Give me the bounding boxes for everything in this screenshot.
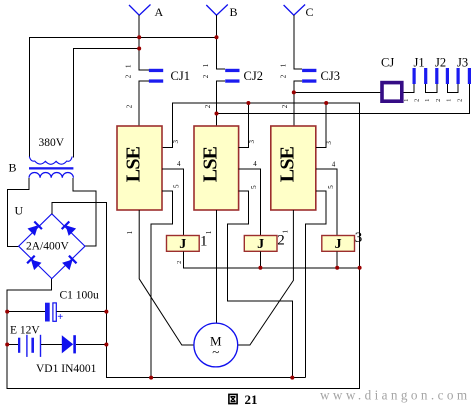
wire CJ3 to LSE3 pin 2: [294, 81, 302, 126]
wire LSE2 pin 3 to common net: [239, 103, 249, 147]
svg-text:1: 1: [202, 63, 210, 67]
svg-text:1: 1: [403, 99, 410, 102]
svg-text:2: 2: [281, 104, 289, 108]
node J3 return: [215, 112, 219, 116]
bridge rectifier U diamond: [19, 214, 85, 279]
svg-text:2: 2: [126, 104, 134, 108]
antenna B: [206, 5, 228, 16]
antenna C: [284, 5, 306, 16]
svg-text:1: 1: [445, 99, 452, 102]
wire secondary left to bridge AC1: [7, 178, 29, 247]
wire relay J2 bottom: [259, 251, 261, 267]
relay coil J (3): [322, 236, 355, 252]
svg-text:C: C: [306, 5, 314, 19]
relay coil J (2): [244, 236, 277, 252]
svg-text:LSE: LSE: [123, 146, 145, 182]
svg-text:LSE: LSE: [200, 146, 222, 182]
wire VD1 to DC rail: [76, 344, 107, 346]
IC LSE1: [117, 126, 162, 210]
node CJ coil left: [292, 90, 296, 94]
svg-text:J: J: [257, 237, 264, 252]
wire phase bus A-B to transformer primary left: [30, 37, 217, 157]
svg-text:3: 3: [355, 230, 363, 246]
svg-text:J: J: [179, 237, 186, 252]
diode VD1: [62, 335, 73, 353]
svg-text:CJ3: CJ3: [321, 69, 340, 83]
svg-text:2: 2: [414, 99, 421, 102]
svg-text:2: 2: [204, 104, 212, 108]
diode bridge lower-right: [62, 260, 73, 271]
svg-text:380V: 380V: [39, 137, 65, 149]
diode bridge upper-left: [28, 225, 39, 236]
svg-text:1: 1: [200, 233, 208, 249]
transformer B secondary winding: [29, 173, 73, 178]
wire antenna C down to CJ3: [294, 15, 302, 69]
wire CJ2 to LSE2 pin 2: [217, 81, 226, 126]
wire contact J2 to J3: [447, 84, 458, 92]
svg-text:1: 1: [424, 99, 431, 102]
node J2 bottom: [258, 266, 262, 270]
wire LSE2 pin 5 to supply rail: [228, 191, 293, 378]
svg-text:LSE: LSE: [276, 146, 298, 182]
wire bridge plus to DC rail and LSE pin5 rail: [52, 202, 306, 377]
transformer B core: [29, 167, 73, 169]
wire CJ coil to contact J1: [404, 84, 415, 92]
svg-text:E 12V: E 12V: [10, 325, 40, 337]
node C1 right: [104, 310, 108, 314]
svg-text:J3: J3: [457, 56, 468, 70]
node A bus: [137, 35, 141, 39]
wire LSE3 pin 5 to supply rail: [305, 191, 326, 378]
svg-text:CJ2: CJ2: [244, 69, 263, 83]
wire battery to VD1: [41, 344, 62, 346]
transformer B primary winding: [29, 157, 72, 165]
wire C1 right: [57, 311, 107, 313]
wire node CJ3 to relay coil CJ: [294, 91, 381, 93]
relay coil CJ: [382, 83, 402, 102]
svg-text:CJ: CJ: [381, 56, 394, 70]
motor M: [194, 323, 238, 367]
svg-text:2: 2: [125, 74, 133, 78]
svg-text:3: 3: [248, 140, 256, 144]
svg-text:J1: J1: [414, 56, 425, 70]
wire LSE3 pin 3 to common net: [316, 103, 326, 147]
svg-text:~: ~: [212, 344, 219, 359]
diode bridge upper-right: [66, 225, 77, 236]
svg-text:4: 4: [332, 161, 336, 169]
wire LSE1 pin 5 to supply rail: [151, 191, 172, 378]
node A tap: [137, 47, 141, 51]
wire LSE3 pin 4 to relay J3 coil: [316, 169, 337, 236]
wire contact J1 to J2: [426, 84, 437, 92]
svg-text:3: 3: [172, 140, 180, 144]
node LSE2 pin3: [246, 101, 250, 105]
svg-text:2: 2: [176, 261, 183, 264]
contact J3 bars: [457, 68, 460, 84]
contact CJ2 top bar: [225, 69, 239, 72]
svg-text:3: 3: [325, 141, 333, 145]
wire LSE3 pin 1 to motor right: [238, 210, 294, 345]
svg-text:J2: J2: [435, 56, 446, 70]
svg-text:A: A: [155, 5, 164, 19]
wire battery left: [7, 344, 18, 346]
IC LSE3: [271, 126, 316, 210]
svg-text:1: 1: [124, 64, 132, 68]
contact J1 bars: [413, 68, 416, 84]
svg-text:2: 2: [457, 99, 464, 102]
wire common net: LSE pin3 bus, right rail, bottom bus to bridge minus: [7, 103, 359, 389]
wire CJ1 to LSE1 pin 2: [139, 81, 149, 126]
caption figure 21 glyph: [229, 394, 237, 403]
svg-text:B: B: [230, 5, 238, 19]
svg-text:1: 1: [126, 230, 134, 234]
node B bus: [215, 35, 219, 39]
wire antenna B down to CJ2: [217, 15, 226, 69]
diode bridge lower-left: [31, 260, 42, 271]
wire LSE1 pin 4 to relay J1 coil: [162, 169, 184, 236]
svg-text:U: U: [15, 204, 24, 218]
contact CJ1 top bar: [149, 69, 163, 72]
node J3 bottom: [335, 266, 339, 270]
svg-text:J: J: [335, 237, 342, 252]
IC LSE2: [194, 126, 239, 210]
svg-text:4: 4: [177, 160, 181, 168]
contact CJ2 bottom bar: [225, 79, 239, 82]
svg-text:4: 4: [253, 160, 257, 168]
antenna A: [129, 5, 151, 16]
wire phase A to transformer primary right: [74, 49, 140, 158]
wire relay J3 bottom: [336, 251, 338, 267]
wire LSE1 pin 1 to motor left: [139, 210, 194, 345]
svg-text:2: 2: [277, 233, 285, 249]
svg-text:VD1 IN4001: VD1 IN4001: [36, 363, 97, 375]
node C1 left: [5, 310, 9, 314]
svg-text:21: 21: [245, 392, 258, 407]
node right rail: [358, 266, 362, 270]
node rail LSE1 pin5: [149, 376, 153, 380]
capacitor C1: [45, 303, 50, 322]
svg-text:www.diangon.com: www.diangon.com: [320, 388, 471, 403]
svg-text:B: B: [9, 161, 17, 175]
wire contact J3 return to node on CJ2 wire: [217, 84, 470, 114]
node rail LSE2 pin5: [290, 376, 294, 380]
svg-text:5: 5: [250, 185, 258, 189]
wire antenna A down to CJ1: [139, 15, 149, 70]
wire relay J bottoms bus: [184, 251, 360, 267]
svg-text:CJ1: CJ1: [171, 69, 190, 83]
contact CJ1 bottom bar: [149, 79, 163, 82]
contact CJ3 bottom bar: [302, 79, 316, 82]
contact CJ3 top bar: [302, 69, 316, 72]
svg-text:5: 5: [173, 184, 181, 188]
node LSE3 pin3: [324, 101, 328, 105]
svg-text:5: 5: [327, 185, 335, 189]
node battery left: [5, 343, 9, 347]
wire C1 left: [7, 311, 45, 313]
battery E: [18, 338, 20, 353]
contact J2 bars: [435, 68, 438, 84]
svg-text:2: 2: [280, 74, 288, 78]
svg-text:2: 2: [435, 99, 442, 102]
svg-text:2A/400V: 2A/400V: [26, 240, 70, 252]
wire LSE2 pin 1 to motor top: [216, 210, 218, 323]
svg-text:1: 1: [280, 63, 288, 67]
wire LSE2 pin 4 to relay J2 coil: [239, 169, 261, 236]
node VD1 right: [104, 343, 108, 347]
svg-text:C1 100u: C1 100u: [60, 290, 100, 302]
svg-text:+: +: [57, 312, 63, 323]
wire secondary right to bridge AC2: [73, 178, 96, 246]
relay coil J (1): [167, 236, 200, 252]
svg-text:2: 2: [202, 74, 210, 78]
